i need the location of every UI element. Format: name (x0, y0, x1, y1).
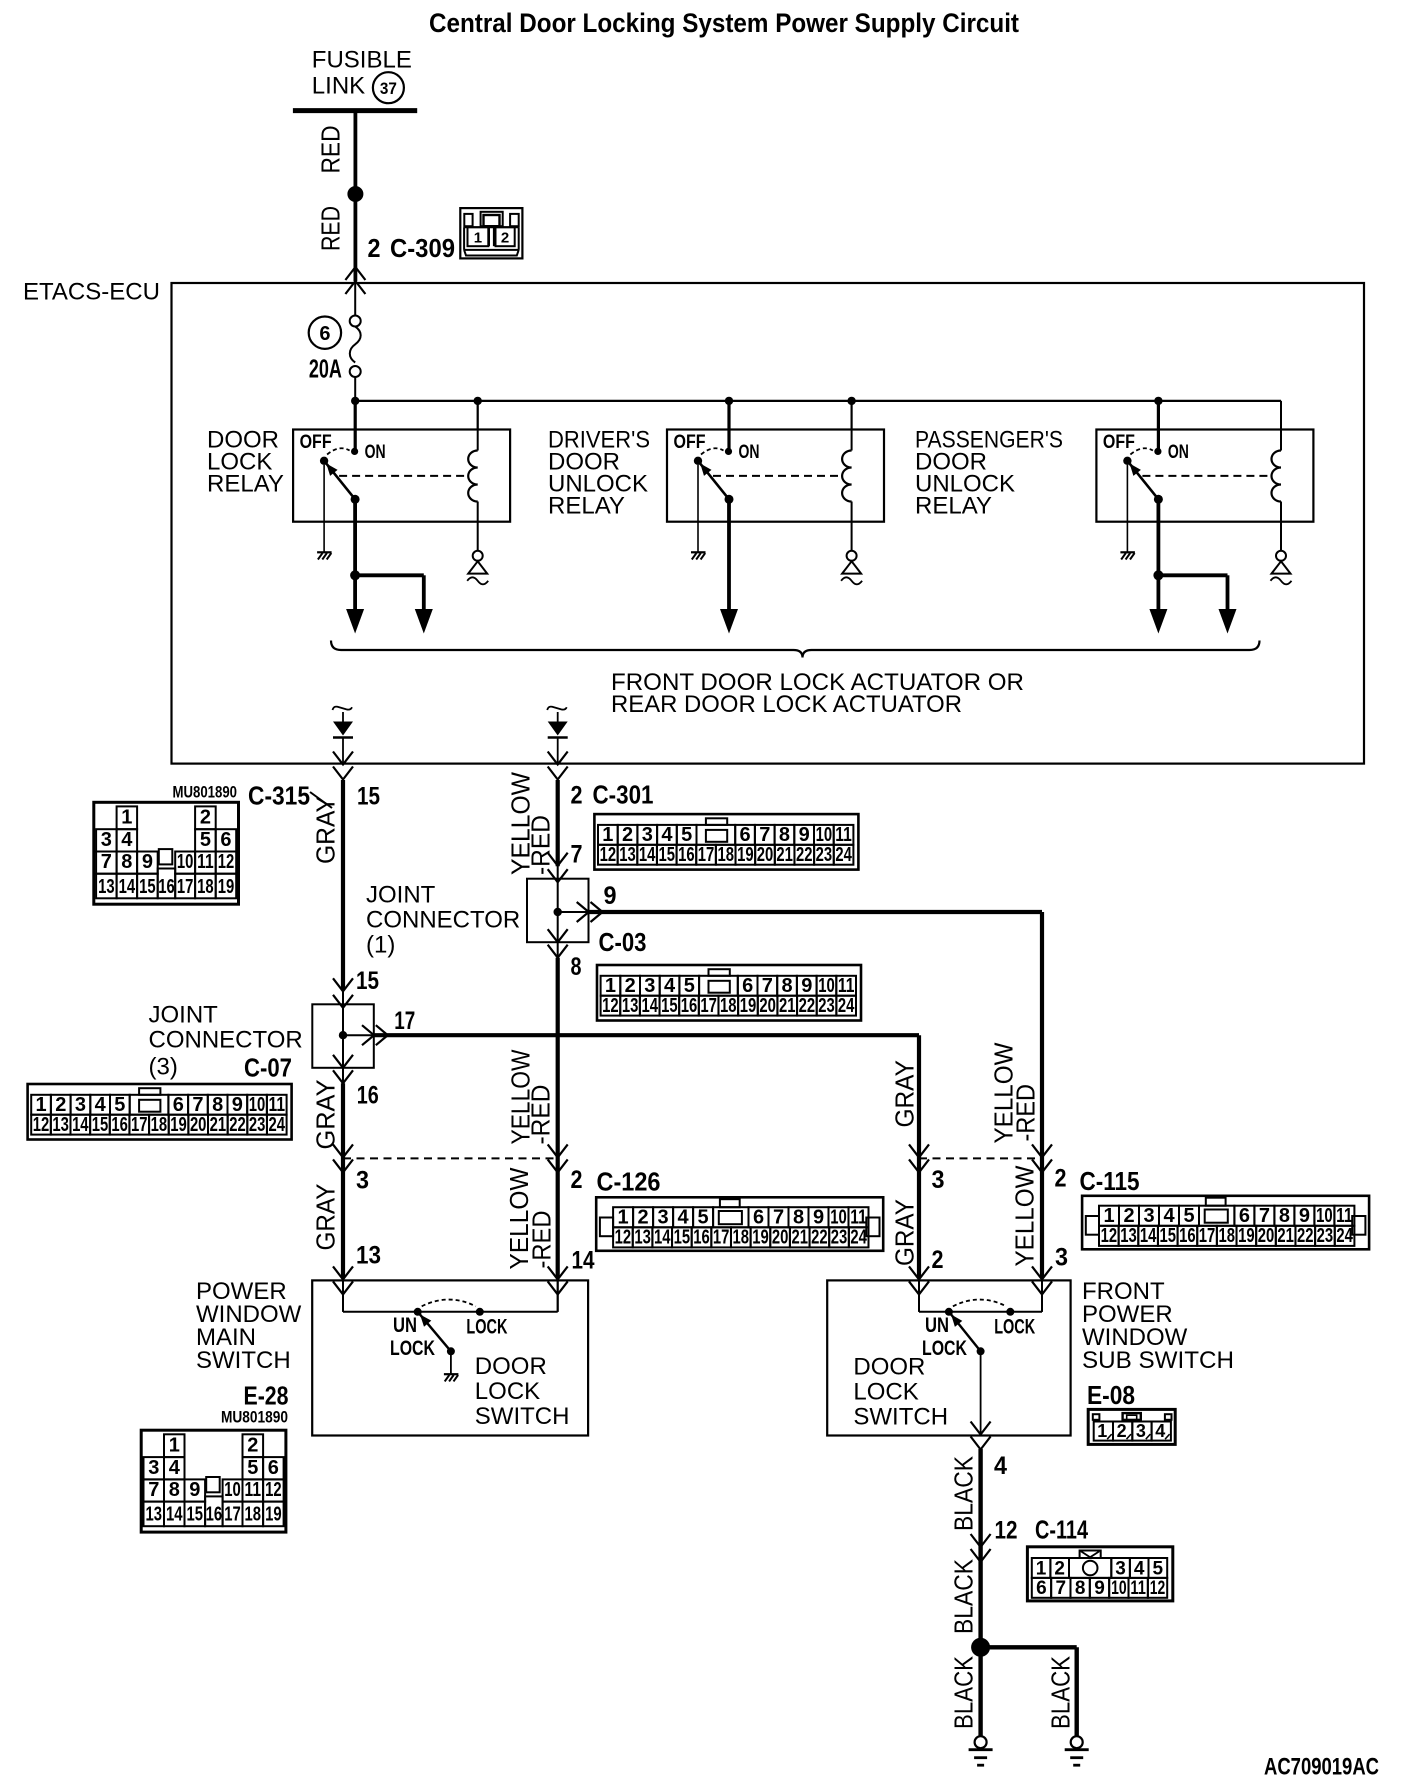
svg-text:1: 1 (474, 230, 482, 247)
svg-text:2: 2 (55, 1094, 66, 1116)
svg-text:9: 9 (813, 1207, 824, 1229)
svg-text:10: 10 (249, 1094, 266, 1116)
svg-text:OFF: OFF (674, 431, 706, 453)
svg-text:12: 12 (995, 1517, 1018, 1545)
E-08 crossing gray (909, 1266, 929, 1294)
door lock switch label (main) (475, 1353, 570, 1430)
svg-text:1: 1 (1097, 1421, 1107, 1441)
svg-text:17: 17 (394, 1007, 415, 1035)
door lock switch (main) ground (444, 1351, 459, 1381)
diagram id AC709019AC (1264, 1754, 1379, 1781)
svg-text:17: 17 (713, 1227, 730, 1249)
svg-text:CONNECTOR: CONNECTOR (149, 1027, 303, 1054)
svg-text:SWITCH: SWITCH (475, 1403, 570, 1430)
svg-text:13: 13 (619, 844, 636, 866)
svg-text:BLACK: BLACK (949, 1455, 979, 1531)
svg-text:SWITCH: SWITCH (196, 1347, 291, 1374)
svg-text:RED: RED (316, 206, 346, 251)
svg-text:14: 14 (654, 1227, 671, 1249)
svg-text:18: 18 (717, 844, 734, 866)
svg-text:15: 15 (356, 967, 379, 995)
svg-text:10: 10 (1316, 1205, 1333, 1227)
power window main switch box (312, 1280, 588, 1435)
svg-text:11: 11 (835, 824, 852, 846)
wire label RED lower (316, 206, 346, 251)
wire: GRAY between JC3 and C-126 (341, 1083, 345, 1312)
svg-text:11: 11 (838, 975, 855, 997)
relay: DRIVER'S DOOR UNLOCK RELAY (548, 401, 884, 634)
svg-text:16: 16 (678, 844, 695, 866)
svg-text:1: 1 (605, 975, 616, 997)
pin 3 below C-115 gray (932, 1166, 945, 1194)
svg-text:9: 9 (604, 882, 617, 910)
svg-text:23: 23 (816, 844, 833, 866)
svg-text:MU801890: MU801890 (221, 1409, 288, 1427)
svg-text:LOCK: LOCK (994, 1316, 1035, 1339)
front power window sub switch label (1082, 1278, 1234, 1374)
svg-text:16: 16 (206, 1504, 223, 1526)
connector C-115 pin grid (1082, 1196, 1369, 1250)
svg-text:-RED: -RED (526, 815, 556, 875)
svg-text:12: 12 (1150, 1578, 1166, 1599)
svg-text:ON: ON (1168, 441, 1189, 463)
harness dashed boundary left (343, 1157, 558, 1159)
svg-text:7: 7 (192, 1094, 203, 1116)
svg-text:BLACK: BLACK (1046, 1655, 1076, 1729)
svg-text:20: 20 (757, 844, 774, 866)
svg-text:2: 2 (1117, 1421, 1127, 1441)
svg-text:14: 14 (119, 876, 136, 898)
svg-text:3: 3 (642, 824, 653, 846)
joint connector (3) label (149, 1002, 303, 1081)
svg-text:19: 19 (1238, 1225, 1255, 1247)
svg-text:BLACK: BLACK (949, 1558, 979, 1634)
svg-text:JOINT: JOINT (366, 882, 436, 909)
door lock switch (sub) output (971, 1351, 991, 1449)
door lock switch label (sub) (853, 1354, 948, 1431)
svg-text:17: 17 (698, 844, 715, 866)
wire label GRAY 2 (311, 1080, 341, 1150)
power window main switch label (196, 1278, 302, 1374)
svg-text:17: 17 (224, 1504, 241, 1526)
svg-text:13: 13 (52, 1114, 69, 1136)
svg-text:20: 20 (772, 1227, 789, 1249)
svg-text:DOOR: DOOR (853, 1354, 925, 1381)
svg-text:23: 23 (249, 1114, 266, 1136)
svg-text:7: 7 (773, 1207, 784, 1229)
svg-text:11: 11 (1130, 1578, 1146, 1599)
svg-text:7: 7 (762, 975, 773, 997)
svg-text:C-309: C-309 (390, 235, 455, 263)
return wire right from actuator (547, 707, 568, 780)
wire label BLACK 4 (1046, 1655, 1076, 1729)
svg-text:13: 13 (634, 1227, 651, 1249)
wire label BLACK 2 (949, 1558, 979, 1634)
bus junction dots (351, 397, 1163, 405)
joint connector (1) label (366, 882, 520, 959)
svg-text:15: 15 (187, 1504, 204, 1526)
svg-text:37: 37 (380, 80, 397, 98)
svg-text:2: 2 (247, 1435, 258, 1457)
E-08 crossing yellow-red (1032, 1266, 1052, 1294)
wire label RED upper (316, 126, 346, 174)
svg-text:5: 5 (1153, 1558, 1164, 1579)
relay feed 3 (1157, 401, 1160, 452)
pin 13 at main switch (356, 1242, 381, 1270)
svg-text:C-114: C-114 (1035, 1517, 1089, 1545)
relay feed 2 (727, 401, 730, 452)
E-28 crossing yellow-red (548, 1266, 568, 1294)
svg-text:19: 19 (265, 1504, 282, 1526)
svg-text:14: 14 (1140, 1225, 1157, 1247)
pin 2 label C-301 (571, 782, 654, 810)
wire label BLACK 3 (949, 1655, 979, 1729)
ground junction (971, 1638, 990, 1657)
svg-text:17: 17 (700, 995, 717, 1017)
pin 8 below joint connector 1 (571, 953, 582, 981)
svg-text:14: 14 (166, 1504, 183, 1526)
connector E-28 label (221, 1383, 289, 1427)
svg-text:24: 24 (835, 844, 852, 866)
fusible link bus bar (293, 108, 417, 113)
ETACS-ECU label (23, 279, 160, 306)
svg-text:REAR DOOR LOCK ACTUATOR: REAR DOOR LOCK ACTUATOR (611, 691, 962, 718)
svg-text:6: 6 (268, 1457, 279, 1479)
svg-text:22: 22 (811, 1227, 828, 1249)
svg-text:1: 1 (1036, 1558, 1047, 1579)
svg-text:MU801890: MU801890 (173, 784, 238, 802)
pin 16 below joint connector 3 (357, 1082, 379, 1110)
connector C-07 pin grid (28, 1084, 292, 1140)
svg-text:13: 13 (146, 1504, 163, 1526)
svg-text:15: 15 (92, 1114, 109, 1136)
svg-text:19: 19 (218, 876, 235, 898)
svg-text:20: 20 (759, 995, 776, 1017)
svg-text:3: 3 (644, 975, 655, 997)
svg-text:18: 18 (1218, 1225, 1235, 1247)
svg-text:DOOR: DOOR (475, 1353, 547, 1380)
svg-text:3: 3 (1115, 1558, 1126, 1579)
svg-text:3: 3 (75, 1094, 86, 1116)
svg-text:C-126: C-126 (597, 1169, 661, 1197)
svg-text:9: 9 (1094, 1578, 1105, 1599)
pin 3 below C-126 (356, 1167, 369, 1195)
svg-text:SWITCH: SWITCH (853, 1404, 948, 1431)
coil feed driver relay (851, 401, 853, 430)
svg-text:12: 12 (1101, 1225, 1118, 1247)
svg-text:E-08: E-08 (1087, 1382, 1135, 1410)
svg-text:SUB SWITCH: SUB SWITCH (1082, 1347, 1234, 1374)
svg-text:GRAY: GRAY (311, 796, 341, 864)
svg-text:RELAY: RELAY (915, 493, 992, 520)
connector C-114 pin grid (1027, 1547, 1172, 1601)
svg-text:E-28: E-28 (244, 1383, 289, 1411)
svg-text:8: 8 (169, 1479, 180, 1501)
svg-text:2: 2 (625, 975, 636, 997)
svg-text:GRAY: GRAY (890, 1060, 920, 1128)
svg-text:22: 22 (796, 844, 813, 866)
svg-text:BLACK: BLACK (949, 1655, 979, 1729)
svg-text:8: 8 (793, 1207, 804, 1229)
svg-text:16: 16 (693, 1227, 710, 1249)
svg-text:3: 3 (932, 1166, 945, 1194)
svg-text:JOINT: JOINT (149, 1002, 219, 1029)
svg-text:LOCK: LOCK (390, 1337, 435, 1360)
svg-text:RELAY: RELAY (548, 493, 625, 520)
svg-text:C-07: C-07 (244, 1055, 292, 1083)
C-115 crossing yellow-red (1032, 1144, 1052, 1172)
svg-text:10: 10 (816, 824, 833, 846)
E-28 crossing gray (333, 1266, 353, 1294)
svg-text:11: 11 (197, 851, 214, 873)
svg-text:8: 8 (1279, 1205, 1290, 1227)
svg-text:C-115: C-115 (1080, 1168, 1140, 1196)
svg-text:8: 8 (1075, 1578, 1086, 1599)
svg-text:10: 10 (224, 1479, 241, 1501)
wire label GRAY 3 (311, 1184, 341, 1251)
svg-text:12: 12 (602, 995, 619, 1017)
svg-text:ETACS-ECU: ETACS-ECU (23, 279, 160, 306)
svg-text:15: 15 (357, 783, 380, 811)
svg-text:3: 3 (658, 1207, 669, 1229)
svg-text:1: 1 (35, 1094, 46, 1116)
svg-text:23: 23 (1317, 1225, 1334, 1247)
svg-text:2: 2 (368, 235, 381, 263)
svg-text:20: 20 (1258, 1225, 1275, 1247)
wire label YELLOW-RED 2 (506, 1049, 556, 1144)
wire: BLACK to ground (978, 1647, 982, 1736)
svg-text:6: 6 (753, 1207, 764, 1229)
wire: BLACK branch (981, 1647, 1077, 1736)
svg-text:4: 4 (661, 824, 673, 846)
connector C-115 label (1080, 1168, 1140, 1196)
svg-text:14: 14 (572, 1247, 595, 1275)
svg-text:18: 18 (245, 1504, 262, 1526)
relay feed 1 (354, 401, 357, 452)
svg-text:14: 14 (641, 995, 658, 1017)
svg-text:FUSIBLE: FUSIBLE (312, 47, 412, 74)
pin 15 at C-315 (357, 783, 380, 811)
svg-text:16: 16 (681, 995, 698, 1017)
wire label YELLOW-RED right 1 (989, 1042, 1041, 1143)
svg-text:2: 2 (501, 230, 509, 247)
connector crossing into ECU (345, 267, 365, 294)
svg-text:15: 15 (674, 1227, 691, 1249)
svg-text:UN: UN (925, 1314, 949, 1337)
svg-text:11: 11 (850, 1207, 867, 1229)
svg-text:16: 16 (357, 1082, 379, 1110)
wire: YELLOW-RED between JC1 and C-126 (556, 958, 560, 1312)
svg-text:7: 7 (101, 851, 112, 873)
svg-text:11: 11 (245, 1479, 262, 1501)
svg-text:21: 21 (776, 844, 793, 866)
svg-text:12: 12 (615, 1227, 632, 1249)
svg-text:10: 10 (177, 851, 194, 873)
svg-text:19: 19 (737, 844, 754, 866)
C-126 crossing yellow-red (548, 1144, 568, 1172)
fuse 20A (350, 283, 361, 401)
svg-text:(3): (3) (149, 1054, 178, 1081)
C-114 crossing (971, 1534, 991, 1562)
svg-text:15: 15 (1160, 1225, 1177, 1247)
svg-text:23: 23 (831, 1227, 848, 1249)
svg-text:3: 3 (101, 829, 112, 851)
pin 9 tap label (604, 882, 617, 910)
svg-text:19: 19 (752, 1227, 769, 1249)
door lock switch (sub) internals (919, 1280, 1042, 1360)
svg-text:21: 21 (779, 995, 796, 1017)
svg-text:LOCK: LOCK (922, 1337, 967, 1360)
svg-text:OFF: OFF (1103, 431, 1135, 453)
connector C-03 label (599, 929, 647, 957)
svg-text:LOCK: LOCK (466, 1316, 507, 1339)
svg-text:LOCK: LOCK (475, 1378, 540, 1405)
svg-text:9: 9 (142, 851, 153, 873)
svg-text:10: 10 (830, 1207, 847, 1229)
svg-text:12: 12 (218, 851, 235, 873)
return wire left from actuator (333, 707, 354, 780)
wire: YELLOW-RED tap to sub switch (1040, 912, 1044, 1312)
svg-text:2: 2 (622, 824, 633, 846)
connector C-126 pin grid (596, 1197, 883, 1251)
wire: GRAY main drop upper (341, 780, 345, 990)
svg-text:GRAY: GRAY (890, 1199, 920, 1266)
wire label GRAY 1 (311, 796, 341, 864)
svg-text:4: 4 (1134, 1558, 1145, 1579)
svg-text:15: 15 (659, 844, 676, 866)
svg-text:AC709019AC: AC709019AC (1264, 1754, 1379, 1781)
svg-text:18: 18 (151, 1114, 168, 1136)
svg-text:-RED: -RED (1011, 1084, 1041, 1142)
actuator caption (611, 669, 1024, 718)
svg-text:5: 5 (1183, 1205, 1194, 1227)
svg-text:6: 6 (220, 829, 231, 851)
svg-text:22: 22 (1297, 1225, 1314, 1247)
pin 3 at sub switch (1055, 1244, 1068, 1272)
svg-text:4: 4 (1163, 1205, 1175, 1227)
power bus inside ECU (355, 401, 1281, 430)
svg-text:5: 5 (684, 975, 695, 997)
svg-text:22: 22 (799, 995, 816, 1017)
svg-text:16: 16 (111, 1114, 128, 1136)
svg-text:6: 6 (1036, 1578, 1047, 1599)
svg-text:23: 23 (818, 995, 835, 1017)
svg-text:4: 4 (1155, 1421, 1165, 1441)
svg-text:18: 18 (733, 1227, 750, 1249)
svg-text:13: 13 (622, 995, 639, 1017)
svg-text:9: 9 (799, 824, 810, 846)
pin 2 at sub switch (932, 1246, 944, 1274)
svg-text:12: 12 (33, 1114, 50, 1136)
svg-text:24: 24 (838, 995, 855, 1017)
joint connector (3) (312, 978, 919, 1083)
svg-text:13: 13 (1120, 1225, 1137, 1247)
svg-text:16: 16 (158, 876, 175, 898)
svg-text:2: 2 (932, 1246, 944, 1274)
svg-text:17: 17 (177, 876, 194, 898)
connector E-28 pin grid (141, 1430, 286, 1532)
brace to actuators (331, 641, 1260, 658)
svg-text:7: 7 (148, 1479, 159, 1501)
harness dashed boundary right (919, 1157, 1042, 1159)
door lock switch (main) internals (343, 1280, 558, 1360)
svg-text:20A: 20A (309, 354, 342, 384)
svg-text:6: 6 (173, 1094, 184, 1116)
connector E-08 pin grid (1088, 1409, 1175, 1444)
svg-text:17: 17 (131, 1114, 148, 1136)
svg-text:-RED: -RED (526, 1085, 556, 1145)
svg-text:2: 2 (1054, 1558, 1065, 1579)
svg-text:4: 4 (678, 1207, 690, 1229)
svg-text:15: 15 (139, 876, 156, 898)
wire label BLACK 1 (949, 1455, 979, 1531)
svg-text:4: 4 (95, 1094, 107, 1116)
svg-text:6: 6 (1239, 1205, 1250, 1227)
svg-text:2: 2 (1055, 1165, 1067, 1193)
wire label YELLOW-RED 1 (506, 772, 556, 875)
svg-text:GRAY: GRAY (311, 1184, 341, 1251)
svg-text:24: 24 (269, 1114, 286, 1136)
svg-text:C-301: C-301 (593, 782, 654, 810)
connector E-08 label (1087, 1382, 1135, 1410)
svg-text:8: 8 (212, 1094, 223, 1116)
wire label YELLOW-RED 3 (504, 1167, 557, 1269)
svg-text:(1): (1) (366, 932, 395, 959)
svg-text:ON: ON (365, 441, 386, 463)
svg-text:3: 3 (1055, 1244, 1068, 1272)
C-126 crossing gray (333, 1144, 353, 1172)
svg-text:19: 19 (740, 995, 757, 1017)
svg-text:LOCK: LOCK (853, 1379, 918, 1406)
svg-text:14: 14 (72, 1114, 89, 1136)
svg-text:2: 2 (571, 782, 583, 810)
svg-text:4: 4 (664, 975, 676, 997)
svg-text:8: 8 (781, 975, 792, 997)
svg-text:RED: RED (316, 126, 346, 174)
svg-text:5: 5 (698, 1207, 709, 1229)
svg-text:-RED: -RED (527, 1211, 557, 1269)
connector C-301 pin grid (594, 814, 858, 870)
svg-text:15: 15 (661, 995, 678, 1017)
ground left (969, 1736, 993, 1765)
svg-text:2: 2 (571, 1166, 583, 1194)
svg-text:1: 1 (618, 1207, 629, 1229)
svg-text:19: 19 (170, 1114, 187, 1136)
svg-text:5: 5 (114, 1094, 125, 1116)
svg-text:C-03: C-03 (599, 929, 647, 957)
svg-text:5: 5 (200, 829, 211, 851)
svg-text:21: 21 (1277, 1225, 1294, 1247)
pin 4 below sub switch (994, 1452, 1007, 1480)
svg-text:9: 9 (189, 1479, 200, 1501)
svg-text:6: 6 (739, 824, 750, 846)
svg-text:8: 8 (571, 953, 582, 981)
svg-text:21: 21 (210, 1114, 227, 1136)
svg-text:10: 10 (1111, 1578, 1127, 1599)
wire label GRAY right 1 (890, 1060, 920, 1128)
svg-text:17: 17 (1199, 1225, 1216, 1247)
ETACS-ECU box (172, 283, 1365, 764)
connector C-315 pin grid (94, 802, 239, 904)
svg-text:1: 1 (169, 1435, 180, 1457)
svg-text:6: 6 (319, 323, 330, 345)
svg-text:3: 3 (356, 1167, 369, 1195)
fusible link 37 label (312, 47, 412, 104)
connector C-309 icon (460, 208, 522, 258)
svg-text:2: 2 (200, 807, 211, 829)
svg-text:21: 21 (791, 1227, 808, 1249)
pin 14 at main switch (572, 1247, 595, 1275)
